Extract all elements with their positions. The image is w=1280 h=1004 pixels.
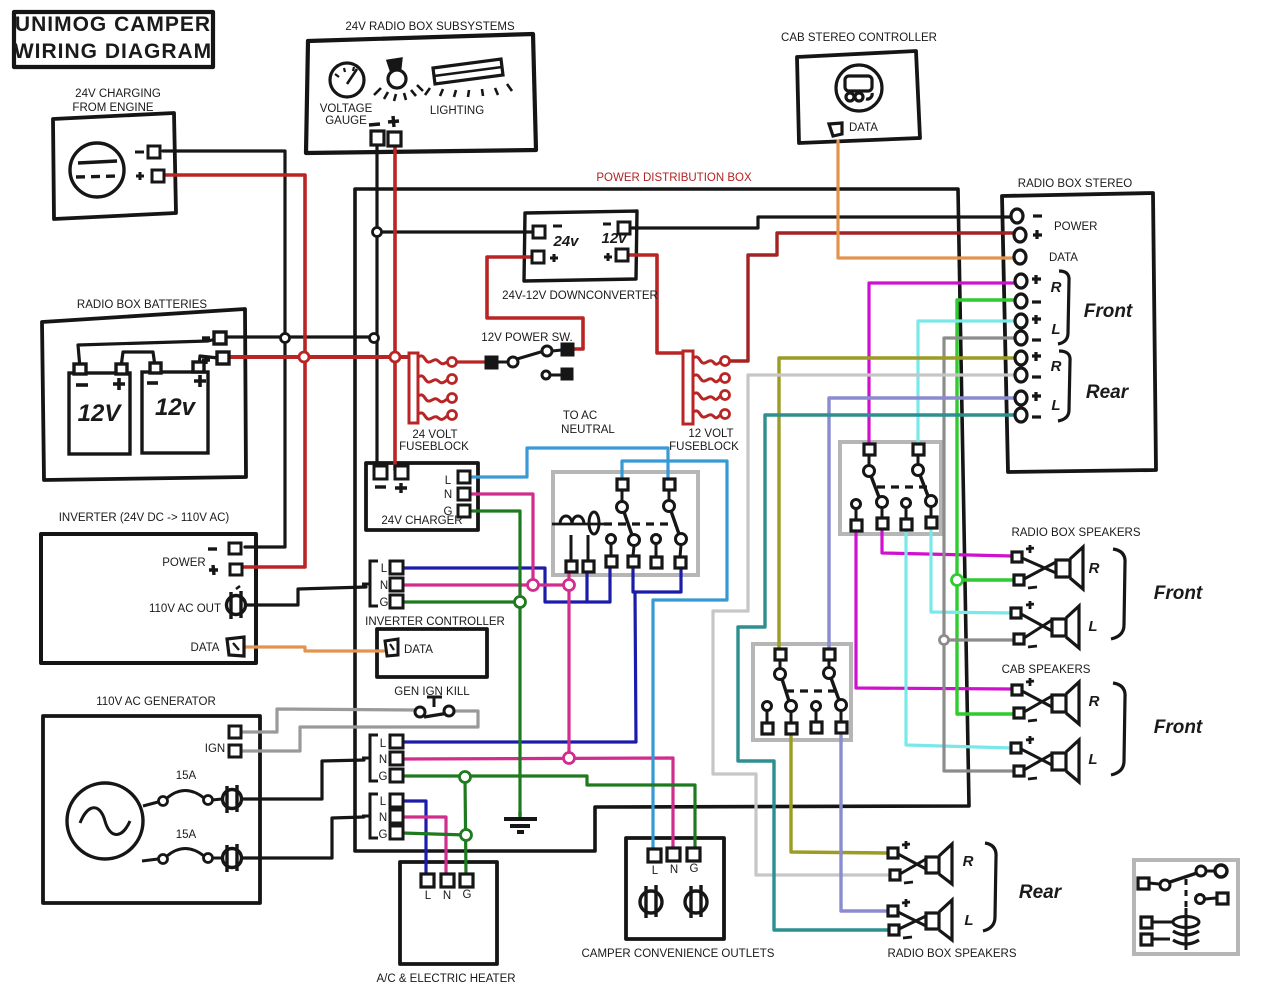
svg-text:24v: 24v (552, 233, 580, 250)
svg-text:L: L (381, 563, 388, 575)
svg-text:N: N (444, 489, 452, 501)
svg-text:TO AC: TO AC (563, 410, 597, 422)
svg-text:R: R (1089, 560, 1100, 577)
svg-text:DATA: DATA (404, 644, 433, 656)
svg-text:FUSEBLOCK: FUSEBLOCK (399, 441, 469, 453)
svg-text:GEN IGN KILL: GEN IGN KILL (394, 686, 470, 698)
svg-text:POWER: POWER (1054, 221, 1097, 233)
svg-text:R: R (1089, 693, 1100, 710)
svg-text:L: L (425, 890, 432, 902)
svg-text:L: L (964, 912, 973, 929)
svg-text:Front: Front (1154, 583, 1203, 604)
svg-text:12v: 12v (601, 230, 628, 247)
svg-text:110V AC OUT: 110V AC OUT (149, 603, 221, 615)
svg-text:110V AC GENERATOR: 110V AC GENERATOR (96, 696, 216, 708)
svg-text:DATA: DATA (849, 122, 878, 134)
svg-text:G: G (463, 889, 472, 901)
svg-text:G: G (380, 597, 389, 609)
svg-text:L: L (1051, 321, 1060, 338)
svg-text:G: G (690, 863, 699, 875)
svg-text:12v: 12v (155, 394, 197, 421)
svg-text:CAB SPEAKERS: CAB SPEAKERS (1002, 664, 1091, 676)
svg-text:N: N (443, 890, 451, 902)
svg-text:IGN: IGN (205, 743, 225, 755)
svg-text:CAMPER CONVENIENCE OUTLETS: CAMPER CONVENIENCE OUTLETS (582, 948, 775, 960)
svg-text:L: L (380, 796, 387, 808)
svg-text:RADIO BOX SPEAKERS: RADIO BOX SPEAKERS (887, 948, 1016, 960)
svg-text:A/C & ELECTRIC HEATER: A/C & ELECTRIC HEATER (376, 973, 515, 985)
svg-text:RADIO BOX SPEAKERS: RADIO BOX SPEAKERS (1011, 527, 1140, 539)
svg-text:DATA: DATA (191, 642, 220, 654)
svg-text:FROM ENGINE: FROM ENGINE (72, 102, 153, 114)
svg-text:Rear: Rear (1019, 882, 1063, 903)
svg-text:VOLTAGE: VOLTAGE (320, 103, 373, 115)
svg-text:FUSEBLOCK: FUSEBLOCK (669, 441, 739, 453)
svg-text:UNIMOG CAMPER: UNIMOG CAMPER (15, 13, 211, 36)
svg-text:INVERTER (24V DC -> 110V AC): INVERTER (24V DC -> 110V AC) (59, 512, 230, 524)
svg-text:R: R (1051, 279, 1062, 296)
svg-text:G: G (444, 506, 453, 518)
svg-text:Rear: Rear (1086, 382, 1130, 403)
svg-text:12 VOLT: 12 VOLT (688, 428, 733, 440)
svg-text:15A: 15A (176, 770, 197, 782)
svg-text:NEUTRAL: NEUTRAL (561, 424, 615, 436)
svg-text:LIGHTING: LIGHTING (430, 105, 484, 117)
svg-text:Front: Front (1154, 717, 1203, 738)
svg-text:L: L (1088, 751, 1097, 768)
svg-text:RADIO BOX BATTERIES: RADIO BOX BATTERIES (77, 299, 207, 311)
svg-text:GAUGE: GAUGE (325, 115, 367, 127)
svg-text:24 VOLT: 24 VOLT (412, 429, 457, 441)
svg-text:WIRING DIAGRAM: WIRING DIAGRAM (14, 40, 212, 63)
svg-text:L: L (1088, 618, 1097, 635)
svg-text:24V-12V DOWNCONVERTER: 24V-12V DOWNCONVERTER (502, 290, 658, 302)
svg-text:N: N (379, 812, 387, 824)
svg-text:DATA: DATA (1049, 252, 1078, 264)
svg-text:R: R (1051, 358, 1062, 375)
svg-text:L: L (380, 738, 387, 750)
svg-text:12V POWER SW.: 12V POWER SW. (481, 332, 572, 344)
svg-text:N: N (670, 864, 678, 876)
svg-text:N: N (379, 754, 387, 766)
svg-text:RADIO BOX STEREO: RADIO BOX STEREO (1018, 178, 1132, 190)
svg-text:POWER: POWER (162, 557, 205, 569)
svg-text:L: L (652, 865, 659, 877)
svg-text:CAB STEREO CONTROLLER: CAB STEREO CONTROLLER (781, 32, 937, 44)
svg-text:12V: 12V (78, 400, 123, 427)
svg-text:N: N (380, 580, 388, 592)
svg-text:G: G (379, 829, 388, 841)
svg-text:R: R (963, 853, 974, 870)
svg-text:24V CHARGING: 24V CHARGING (75, 88, 161, 100)
svg-text:15A: 15A (176, 829, 197, 841)
svg-text:L: L (1051, 397, 1060, 414)
svg-text:INVERTER CONTROLLER: INVERTER CONTROLLER (365, 616, 505, 628)
svg-text:L: L (445, 475, 452, 487)
svg-text:POWER DISTRIBUTION BOX: POWER DISTRIBUTION BOX (596, 172, 752, 184)
svg-text:Front: Front (1084, 301, 1133, 322)
svg-text:24V RADIO BOX SUBSYSTEMS: 24V RADIO BOX SUBSYSTEMS (345, 21, 515, 33)
svg-text:G: G (379, 771, 388, 783)
